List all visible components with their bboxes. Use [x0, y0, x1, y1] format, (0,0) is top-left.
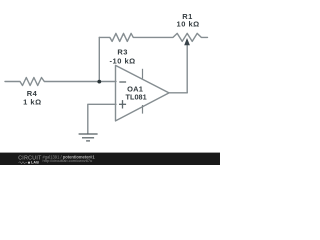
svg-text:TL081: TL081 [126, 92, 147, 101]
svg-text:R3: R3 [117, 48, 128, 57]
svg-text:10 kΩ: 10 kΩ [177, 20, 200, 29]
svg-text:-10 kΩ: -10 kΩ [110, 57, 136, 66]
svg-text:LAB: LAB [31, 161, 39, 165]
svg-text:http://circuitlab.com/cwxv67u: http://circuitlab.com/cwxv67u [43, 158, 93, 163]
svg-text:1 kΩ: 1 kΩ [23, 98, 41, 107]
